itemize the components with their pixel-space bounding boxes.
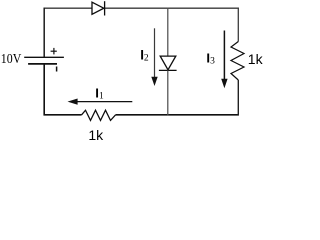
wire left vertical bottom: [43, 64, 45, 116]
battery V1 bottom plate (-, short): [28, 63, 57, 65]
wire middle branch bottom: [167, 70, 169, 115]
wire top horizontal: [44, 7, 239, 9]
wire bottom left segment: [44, 114, 82, 116]
current arrow I1: [68, 99, 133, 105]
svg-text:1k: 1k: [88, 127, 104, 143]
battery V1 top plate (+, long): [24, 56, 64, 58]
resistor R2 right 1k zigzag: [231, 42, 244, 81]
svg-text:10V: 10V: [1, 52, 22, 67]
current arrow I3: [221, 31, 227, 89]
wire right vertical top: [237, 8, 239, 42]
current arrow I2: [151, 28, 157, 86]
svg-text:1: 1: [99, 92, 104, 102]
battery plus sign: [51, 48, 57, 55]
wire middle branch top: [167, 8, 169, 57]
wire bottom right segment: [116, 114, 239, 116]
resistor R1 bottom 1k zigzag: [82, 110, 116, 120]
battery minus tick: [56, 67, 58, 72]
wire right vertical bottom: [237, 80, 239, 115]
diode D1 top (anode left, pointing right): [92, 1, 105, 15]
diode D2 middle (pointing down): [159, 56, 177, 70]
svg-text:1k: 1k: [248, 51, 264, 67]
svg-text:2: 2: [144, 53, 149, 63]
svg-text:3: 3: [210, 56, 215, 66]
wire left vertical top: [43, 8, 45, 58]
